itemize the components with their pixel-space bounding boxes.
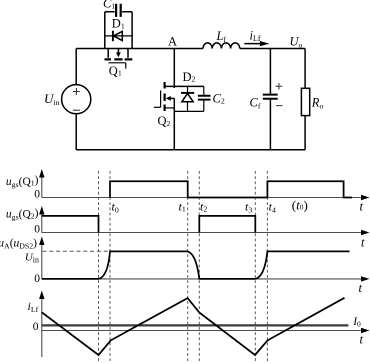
svg-text:C2: C2 xyxy=(213,92,225,106)
svg-text:(t0): (t0) xyxy=(292,197,308,212)
dashed line t1 xyxy=(187,171,189,361)
wire top main right of inductor xyxy=(240,48,305,50)
current arrow i_Lf line xyxy=(244,43,261,45)
svg-text:t0: t0 xyxy=(112,200,119,215)
wf2 y-axis xyxy=(41,213,43,233)
diode D1 cathode bar xyxy=(112,31,114,42)
svg-text:ugs(Q2): ugs(Q2) xyxy=(6,207,39,221)
wf4 x-axis arrow xyxy=(361,328,370,333)
voltage source U_in xyxy=(62,85,91,114)
waveform i_Lf triangle wave xyxy=(42,298,345,355)
svg-text:Ro: Ro xyxy=(311,96,324,111)
svg-text:A: A xyxy=(168,34,177,48)
inductor Lf xyxy=(203,43,240,49)
svg-text:t4: t4 xyxy=(269,200,276,215)
transistor Q2 body arrow xyxy=(166,96,171,101)
wf1 x-axis arrow xyxy=(361,195,370,200)
waveform u_A(u_DS2) curve xyxy=(42,251,350,279)
wire source top xyxy=(75,49,77,85)
wf2 y-axis arrow xyxy=(39,206,44,215)
diode D1 triangle xyxy=(113,31,122,40)
transistor Q1 channel bars xyxy=(105,58,133,60)
svg-text:t: t xyxy=(361,236,365,250)
U_in plus sign xyxy=(73,88,80,95)
svg-text:D2: D2 xyxy=(183,70,196,84)
diode D1 lead xyxy=(105,35,132,37)
diode D2 triangle xyxy=(182,93,193,101)
wire Ro bottom xyxy=(304,116,306,150)
wf2 x-axis xyxy=(42,232,362,234)
svg-text:Q2: Q2 xyxy=(158,114,171,128)
dashed line t0 xyxy=(109,171,111,361)
transistor Q2 gate line xyxy=(160,90,162,107)
svg-text:0: 0 xyxy=(34,223,40,235)
dashed line t4 xyxy=(266,171,268,361)
capacitor C2 plates xyxy=(198,96,211,100)
wire bottom rail xyxy=(76,149,305,151)
wf4 y-axis arrow xyxy=(39,291,44,300)
diode D2 cathode bar xyxy=(181,92,194,94)
wf3 x-axis arrow xyxy=(361,276,370,281)
transistor Q2 body lead xyxy=(171,97,175,99)
svg-text:t: t xyxy=(360,200,364,214)
svg-text:iLf: iLf xyxy=(250,28,261,43)
wf2 x-axis arrow xyxy=(361,230,370,235)
svg-text:t: t xyxy=(360,333,364,347)
U_in minus sign xyxy=(73,109,80,111)
dashed line t2 xyxy=(198,171,200,361)
svg-text:0: 0 xyxy=(34,273,40,285)
wire Ro top xyxy=(304,49,306,89)
I0 average level line xyxy=(42,324,349,326)
wf3 y-axis xyxy=(41,244,43,279)
wire Cf top xyxy=(269,49,271,94)
transistor Q2 drain line xyxy=(165,85,204,87)
transistor Q1 body lead xyxy=(117,49,119,53)
current arrow i_Lf head xyxy=(260,41,270,46)
svg-text:uA(uDS2): uA(uDS2) xyxy=(0,237,37,250)
wf4 x-axis xyxy=(42,330,362,332)
svg-text:t: t xyxy=(359,281,363,295)
wf3 y-axis arrow xyxy=(39,237,44,246)
capacitor C1 plates xyxy=(116,4,121,17)
wire Cf bottom xyxy=(269,100,271,150)
svg-text:Uin: Uin xyxy=(44,91,60,107)
capacitor C1 leads xyxy=(105,11,132,13)
svg-text:Q1: Q1 xyxy=(109,64,122,78)
wf3 x-axis xyxy=(42,278,362,280)
svg-text:D1: D1 xyxy=(112,17,125,31)
dashed line t(Q2 off) xyxy=(98,171,100,361)
wire source bottom xyxy=(75,114,77,150)
Q1 snubber box right edge xyxy=(131,12,133,49)
Cf plus sign xyxy=(276,83,283,90)
svg-text:t1: t1 xyxy=(179,200,186,214)
svg-text:C1: C1 xyxy=(103,0,115,11)
svg-text:ugs(Q1): ugs(Q1) xyxy=(6,175,39,189)
waveform u_gs(Q1) square wave xyxy=(110,181,352,197)
wf1 y-axis arrow xyxy=(39,169,44,178)
wire D2/C2 box bottom xyxy=(174,110,204,112)
capacitor Cf plates xyxy=(263,95,278,99)
wf1 x-axis xyxy=(42,197,362,199)
transistor Q2 channel bars xyxy=(164,82,166,111)
transistor Q1 stubs (drain/source leads) xyxy=(108,49,128,58)
svg-text:t3: t3 xyxy=(245,200,252,215)
resistor Ro body xyxy=(301,88,309,115)
transistor Q1 gate lead xyxy=(125,63,127,69)
wire node A vertical xyxy=(173,49,175,89)
diode D2 leads xyxy=(187,86,189,111)
capacitor C2 leads xyxy=(203,86,205,111)
svg-text:Uo: Uo xyxy=(290,34,303,49)
svg-text:iLf: iLf xyxy=(28,299,39,314)
dashed line t3 xyxy=(254,171,256,361)
waveform u_gs(Q2) square wave xyxy=(42,216,256,233)
transistor Q1 gate line xyxy=(108,62,125,64)
svg-text:I0: I0 xyxy=(352,316,361,329)
svg-text:Uin: Uin xyxy=(25,252,39,265)
svg-text:Cf: Cf xyxy=(250,96,261,111)
svg-text:0: 0 xyxy=(33,321,39,333)
svg-text:t2: t2 xyxy=(200,200,207,214)
wf1 y-axis xyxy=(41,176,43,198)
svg-text:Lf: Lf xyxy=(216,29,227,44)
wire top main left of inductor xyxy=(76,48,203,50)
transistor Q2 source stub xyxy=(165,107,175,109)
Q1 snubber box left edge xyxy=(104,12,106,49)
dashed level U_in xyxy=(43,250,111,252)
wire Q2 source down xyxy=(173,98,175,149)
Cf minus sign xyxy=(276,105,283,107)
svg-text:0: 0 xyxy=(34,189,40,201)
transistor Q2 gate lead xyxy=(154,106,161,108)
wf4 y-axis xyxy=(41,298,43,357)
transistor Q1 body arrow xyxy=(116,52,121,57)
